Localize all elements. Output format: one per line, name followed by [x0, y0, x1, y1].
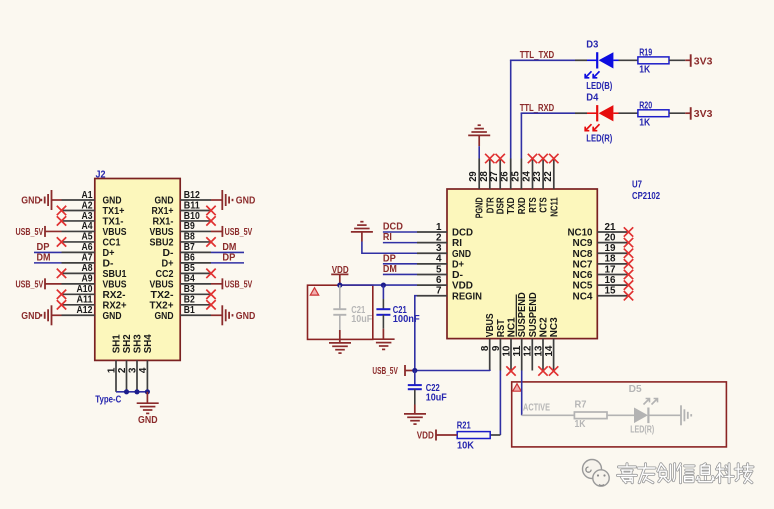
- J2 pin A10 RX2-: [62, 284, 126, 301]
- value label LED(B): [586, 81, 612, 92]
- LED D5 ghost: [634, 399, 658, 424]
- no-connect X on U7 pin 19: [624, 249, 633, 258]
- U7 pin 23 CTS: [532, 159, 550, 213]
- wire R20 to 3V3: [669, 112, 691, 114]
- no-connect X on U7 pin 22: [549, 154, 558, 163]
- wire DM at U7 pin 5: [383, 273, 417, 275]
- svg-text:VBUS: VBUS: [485, 313, 496, 337]
- svg-text:DM: DM: [222, 242, 236, 253]
- net label DM wire at J2 pin B7: [211, 242, 244, 253]
- svg-text:B11: B11: [184, 200, 200, 211]
- svg-text:Type-C: Type-C: [95, 395, 121, 406]
- svg-text:LED(R): LED(R): [630, 424, 654, 435]
- svg-text:3: 3: [436, 243, 442, 254]
- power flag USB_5V at J2 pin A9: [16, 278, 62, 290]
- svg-text:GND: GND: [236, 196, 256, 207]
- U7 pin 4 D+: [417, 254, 464, 271]
- wire TTL_TXD from U7 pin 26: [510, 60, 587, 158]
- U7 pin 2 RI: [417, 232, 462, 249]
- power flag VDD at R21: [417, 430, 436, 442]
- J2 pin B12 GND: [155, 190, 212, 207]
- U7 pin 11 SUSPEND: [512, 292, 528, 370]
- svg-text:VBUS: VBUS: [150, 227, 174, 238]
- resistor R7 ghost: [574, 412, 607, 419]
- svg-text:29: 29: [468, 171, 479, 182]
- svg-text:TXD: TXD: [506, 197, 517, 214]
- svg-text:B8: B8: [184, 232, 195, 243]
- svg-text:NC5: NC5: [573, 281, 593, 292]
- net label DM: [383, 264, 397, 275]
- J2 pin A2 TX1+: [62, 200, 125, 217]
- J2 pin A3 TX1-: [62, 211, 124, 228]
- U7 pin 16 NC5: [573, 275, 629, 292]
- U7 pin 19 NC8: [573, 243, 629, 260]
- wire DCD at U7 pin 1: [383, 231, 417, 233]
- designator R21: [457, 420, 471, 431]
- svg-text:TX2+: TX2+: [150, 300, 174, 311]
- svg-text:B6: B6: [184, 253, 195, 264]
- J2 pin B2 TX2+: [150, 295, 212, 312]
- wire shield bus under J2: [116, 391, 147, 393]
- wire R21 to VDD: [436, 434, 457, 436]
- svg-text:GND: GND: [21, 311, 41, 322]
- net label DP: [383, 253, 396, 264]
- J2 pin A7 D-: [62, 253, 114, 270]
- ground below ghost C21: [329, 330, 351, 353]
- wire D5 to ground ghost: [648, 414, 681, 416]
- svg-text:U7: U7: [632, 179, 642, 190]
- net label RI: [383, 232, 392, 243]
- svg-text:19: 19: [605, 243, 616, 254]
- U7 pin 7 REGIN: [417, 286, 482, 303]
- watermark text: [618, 464, 754, 483]
- wire VDD node to U7 pin 6: [340, 284, 417, 286]
- svg-text:PGND: PGND: [475, 197, 486, 218]
- svg-text:A8: A8: [82, 263, 93, 274]
- J2 pin B4 VBUS: [150, 274, 212, 291]
- svg-text:RI: RI: [383, 232, 392, 243]
- svg-text:R20: R20: [639, 100, 652, 111]
- net label DM wire at J2 pin A7: [34, 252, 62, 263]
- svg-text:RX1-: RX1-: [153, 217, 174, 228]
- U7 pin 15 NC4: [573, 286, 629, 303]
- designator D3: [586, 40, 598, 51]
- svg-text:3V3: 3V3: [694, 109, 713, 120]
- net label DP wire at J2 pin A6: [34, 242, 62, 253]
- svg-text:A12: A12: [77, 305, 93, 316]
- svg-text:18: 18: [605, 254, 616, 265]
- U7 pin 18 NC7: [573, 254, 629, 271]
- svg-text:RXD: RXD: [517, 197, 528, 214]
- wire gnd to U7 pin 3: [362, 242, 417, 254]
- svg-text:REGIN: REGIN: [452, 291, 482, 302]
- svg-text:J2: J2: [96, 170, 106, 181]
- svg-text:SH1: SH1: [111, 334, 122, 353]
- svg-text:1K: 1K: [639, 117, 651, 128]
- value label 100nF: [393, 314, 420, 325]
- J2 pin B6 D+: [162, 253, 212, 270]
- svg-text:A3: A3: [82, 211, 93, 222]
- power flag USB_5V at J2 pin B4: [211, 278, 253, 290]
- value label Type-C: [95, 395, 121, 406]
- svg-text:10: 10: [501, 345, 512, 356]
- svg-text:RST: RST: [496, 319, 507, 337]
- designator R19: [639, 48, 652, 59]
- designator C21: [393, 305, 407, 316]
- svg-text:B7: B7: [184, 242, 195, 253]
- svg-text:GND: GND: [103, 196, 122, 207]
- svg-text:GND: GND: [155, 311, 174, 322]
- warning triangle marker: [513, 384, 521, 392]
- no-connect X on U7 pin 13: [538, 366, 547, 375]
- U7 pin 9 RST: [491, 319, 507, 370]
- J2 pin B3 TX2-: [151, 284, 212, 301]
- no-connect X on U7 pin 23: [538, 154, 547, 163]
- net label ACTIVE ghost: [523, 403, 550, 414]
- svg-text:USB_5V: USB_5V: [225, 279, 253, 290]
- svg-text:17: 17: [605, 264, 616, 275]
- svg-text:D+: D+: [452, 259, 464, 270]
- J2 pin B5 CC2: [156, 263, 212, 280]
- svg-text:1: 1: [436, 222, 442, 233]
- svg-text:14: 14: [544, 345, 555, 356]
- svg-text:NC8: NC8: [573, 249, 593, 260]
- svg-text:B12: B12: [184, 190, 200, 201]
- U7 pin 1 DCD: [417, 222, 473, 239]
- svg-text:10uF: 10uF: [351, 314, 372, 325]
- svg-text:DCD: DCD: [452, 228, 473, 239]
- no-connect X on U7 pin 27: [496, 154, 505, 163]
- svg-text:RX2-: RX2-: [103, 290, 126, 301]
- power flag USB_5V at J2 pin B9: [211, 226, 253, 238]
- J2 pin A11 RX2+: [62, 295, 127, 312]
- svg-text:VBUS: VBUS: [103, 227, 127, 238]
- U7 pin 6 VDD: [417, 275, 473, 292]
- J2 pin A6 D+: [62, 242, 115, 259]
- LED D3 blue: [585, 52, 618, 78]
- J2 pin B9 VBUS: [150, 221, 212, 238]
- svg-text:TX2-: TX2-: [151, 290, 174, 301]
- svg-text:A11: A11: [77, 295, 93, 306]
- ground below C21: [373, 329, 395, 350]
- svg-text:2: 2: [117, 367, 128, 373]
- svg-text:LED(R): LED(R): [586, 134, 612, 145]
- svg-text:NC7: NC7: [573, 259, 593, 270]
- ground flag GND at J2 pin A1: [21, 190, 61, 210]
- svg-text:D-: D-: [103, 258, 114, 269]
- ground GND below J2: [137, 392, 159, 426]
- IC U7 body: [447, 189, 597, 339]
- J2 pin A12 GND: [62, 305, 122, 322]
- svg-text:GND: GND: [138, 415, 158, 426]
- svg-text:GND: GND: [21, 196, 41, 207]
- wire ACTIVE to R7 ghost: [522, 414, 575, 416]
- no-connect X on J2 pin B5: [206, 269, 215, 278]
- wire U7 pin 11 to ACTIVE: [521, 371, 523, 416]
- designator D5 ghost: [629, 384, 642, 395]
- svg-text:DM: DM: [383, 264, 397, 275]
- svg-text:RX2+: RX2+: [103, 300, 127, 311]
- svg-text:100nF: 100nF: [393, 314, 420, 325]
- svg-text:B3: B3: [184, 284, 195, 295]
- svg-text:LED(B): LED(B): [586, 81, 612, 92]
- svg-text:CTS: CTS: [539, 197, 550, 213]
- svg-text:10K: 10K: [457, 441, 475, 452]
- junction SH3: [134, 389, 139, 394]
- value label 1K: [639, 65, 651, 76]
- svg-text:28: 28: [479, 171, 490, 182]
- U7 pin 22 NC11: [543, 159, 561, 217]
- no-connect X on U7 pin 21: [624, 227, 633, 236]
- svg-text:GND: GND: [236, 311, 256, 322]
- U7 pin 21 NC10: [568, 222, 629, 239]
- wire DP at U7 pin 4: [383, 263, 417, 265]
- no-connect X on J2 pin A5: [57, 237, 66, 246]
- svg-text:DP: DP: [37, 242, 50, 253]
- U7 pin 29 PGND: [468, 159, 486, 219]
- no-connect X on J2 pin B11: [206, 206, 215, 215]
- svg-text:A10: A10: [77, 284, 93, 295]
- U7 pin 10 NC1: [501, 317, 517, 371]
- capacitor C21 100nF: [376, 285, 390, 329]
- svg-text:TX1+: TX1+: [103, 206, 125, 217]
- wire U7 pin 9 to R21: [490, 371, 500, 436]
- svg-text:R19: R19: [639, 48, 652, 59]
- svg-text:NC4: NC4: [573, 291, 593, 302]
- svg-text:D-: D-: [163, 248, 174, 259]
- svg-text:SH2: SH2: [122, 334, 133, 353]
- no-connect X on J2 pin B8: [206, 237, 215, 246]
- ground GND above U7 pin 29: [468, 125, 490, 158]
- svg-text:NC9: NC9: [573, 238, 593, 249]
- ghost capacitor C21 10uF: [333, 285, 372, 330]
- svg-text:GND: GND: [452, 249, 471, 260]
- svg-text:SUSPEND: SUSPEND: [528, 292, 539, 337]
- svg-text:D4: D4: [586, 93, 598, 104]
- svg-text:RTS: RTS: [528, 197, 539, 213]
- no-connect X on U7 pin 17: [624, 270, 633, 279]
- svg-text:CC1: CC1: [103, 238, 121, 249]
- designator U7: [632, 179, 642, 190]
- J2 pin SH4: [138, 334, 154, 392]
- svg-text:11: 11: [512, 345, 523, 356]
- svg-text:NC11: NC11: [549, 197, 560, 217]
- svg-text:VDD: VDD: [417, 431, 434, 442]
- J2 pin B10 RX1-: [153, 211, 212, 228]
- wire R7 to D5 ghost: [607, 414, 634, 416]
- svg-text:A4: A4: [82, 221, 93, 232]
- svg-text:27: 27: [489, 171, 500, 182]
- svg-text:10uF: 10uF: [426, 393, 447, 404]
- value label LED(R) ghost: [630, 424, 654, 435]
- svg-text:DTR: DTR: [485, 197, 496, 214]
- svg-text:NC6: NC6: [573, 270, 593, 281]
- svg-text:NC10: NC10: [568, 228, 593, 239]
- wire D4 to R20: [619, 112, 638, 114]
- no-connect X on U7 pin 20: [624, 238, 633, 247]
- U7 pin 20 NC9: [573, 232, 629, 249]
- svg-text:7: 7: [436, 286, 442, 297]
- net label TTL_TXD: [520, 50, 555, 61]
- J2 pin B7 D-: [163, 242, 212, 259]
- svg-text:16: 16: [605, 275, 616, 286]
- wire REGIN / USB_5V node: [415, 296, 490, 371]
- svg-text:B9: B9: [184, 221, 195, 232]
- ground flag GND at J2 pin B12: [211, 190, 255, 210]
- svg-text:B4: B4: [184, 274, 195, 285]
- no-connect X on J2 pin B3: [206, 290, 215, 299]
- value label LED(R): [586, 134, 612, 145]
- svg-text:20: 20: [605, 232, 616, 243]
- U7 pin 14 NC3: [544, 317, 560, 371]
- svg-text:4: 4: [138, 367, 149, 373]
- J2 pin A8 SBU1: [62, 263, 127, 280]
- ground flag GND at J2 pin B1: [211, 305, 255, 325]
- no-connect X on U7 pin 10: [506, 366, 515, 375]
- svg-text:B5: B5: [184, 263, 195, 274]
- svg-text:CP2102: CP2102: [632, 191, 660, 202]
- no-connect X on U7 pin 16: [624, 280, 633, 289]
- J2 pin B1 GND: [155, 305, 212, 322]
- svg-text:D3: D3: [586, 40, 598, 51]
- svg-text:D+: D+: [103, 248, 115, 259]
- resistor R19: [638, 57, 669, 64]
- svg-text:24: 24: [522, 171, 533, 182]
- power flag 3V3 at R20: [691, 107, 713, 120]
- svg-text:4: 4: [436, 254, 442, 265]
- no-connect X on J2 pin B2: [206, 300, 215, 309]
- svg-text:25: 25: [510, 171, 521, 182]
- net label TTL_RXD: [520, 103, 555, 114]
- power flag USB_5V at J2 pin A4: [16, 226, 62, 238]
- U7 pin 24 RTS: [522, 159, 540, 213]
- ground GND at U7 pin 3: [351, 222, 373, 242]
- U7 pin 26 TXD: [500, 159, 518, 215]
- no-connect X on U7 pin 15: [624, 291, 633, 300]
- svg-text:NC2: NC2: [539, 317, 550, 337]
- no-connect X on U7 pin 18: [624, 259, 633, 268]
- J2 pin SH1: [106, 334, 122, 392]
- designator R20: [639, 100, 652, 111]
- svg-text:DP: DP: [222, 252, 235, 263]
- J2 pin B8 SBU2: [150, 232, 212, 249]
- junction VDD node: [337, 283, 342, 288]
- svg-text:3V3: 3V3: [694, 56, 713, 67]
- net label DP wire at J2 pin B6: [211, 252, 244, 263]
- svg-text:TTL_TXD: TTL_TXD: [520, 50, 555, 61]
- svg-text:A6: A6: [82, 242, 93, 253]
- svg-text:GND: GND: [103, 311, 122, 322]
- svg-text:A9: A9: [82, 274, 93, 285]
- power flag USB_5V bottom: [372, 365, 414, 377]
- svg-text:21: 21: [605, 222, 616, 233]
- svg-text:VBUS: VBUS: [103, 279, 127, 290]
- J2 pin A4 VBUS: [62, 221, 127, 238]
- svg-text:SH4: SH4: [143, 334, 154, 353]
- no-connect X on J2 pin A8: [57, 269, 66, 278]
- svg-text:12: 12: [523, 345, 534, 356]
- svg-text:ACTIVE: ACTIVE: [523, 403, 550, 414]
- svg-text:RI: RI: [452, 238, 462, 249]
- designator J2: [96, 170, 106, 181]
- no-connect X on U7 pin 28: [485, 154, 494, 163]
- junction C21 node: [381, 283, 386, 288]
- net label DCD: [383, 221, 403, 232]
- svg-text:CC2: CC2: [156, 269, 174, 280]
- value label 10K: [457, 441, 475, 452]
- svg-text:USB_5V: USB_5V: [16, 227, 44, 238]
- no-connect X on J2 pin A3: [57, 216, 66, 225]
- wire R19 to 3V3: [669, 59, 691, 61]
- no-connect X on J2 pin A2: [57, 206, 66, 215]
- U7 pin 3 GND: [417, 243, 471, 260]
- svg-text:13: 13: [533, 345, 544, 356]
- svg-text:23: 23: [532, 171, 543, 182]
- svg-text:22: 22: [543, 171, 554, 182]
- svg-text:9: 9: [491, 345, 502, 351]
- no-connect X on U7 pin 24: [528, 154, 537, 163]
- J2 pin SH3: [127, 334, 143, 392]
- svg-text:VDD: VDD: [452, 281, 473, 292]
- svg-text:D-: D-: [452, 270, 463, 281]
- svg-text:TX1-: TX1-: [103, 217, 124, 228]
- svg-text:26: 26: [500, 171, 511, 182]
- svg-text:8: 8: [480, 345, 491, 351]
- J2 pin A9 VBUS: [62, 274, 127, 291]
- svg-text:R21: R21: [457, 420, 471, 431]
- svg-text:A7: A7: [82, 253, 93, 264]
- value label 1K ghost: [575, 419, 587, 430]
- svg-text:5: 5: [436, 264, 442, 275]
- svg-text:DM: DM: [37, 252, 51, 263]
- U7 pin 25 RXD: [510, 159, 528, 215]
- svg-text:NC3: NC3: [549, 317, 560, 337]
- svg-text:A5: A5: [82, 232, 93, 243]
- svg-text:TTL_RXD: TTL_RXD: [520, 103, 555, 114]
- U7 pin 28 DTR: [479, 159, 497, 214]
- value label CP2102: [632, 191, 660, 202]
- J2 pin B11 RX1+: [152, 200, 212, 217]
- U7 pin 12 SUSPEND: [523, 292, 539, 370]
- U7 pin 8 VBUS: [480, 313, 496, 370]
- svg-text:1K: 1K: [575, 419, 587, 430]
- J2 pin A1 GND: [62, 190, 122, 207]
- resistor R21: [457, 432, 490, 439]
- svg-text:DSR: DSR: [496, 197, 507, 215]
- svg-text:3: 3: [127, 367, 138, 373]
- no-connect X on J2 pin B10: [206, 216, 215, 225]
- resistor R20: [638, 110, 669, 117]
- svg-text:B2: B2: [184, 295, 195, 306]
- svg-text:SH3: SH3: [132, 334, 143, 353]
- svg-text:D+: D+: [162, 258, 174, 269]
- svg-text:2: 2: [436, 232, 442, 243]
- wire TTL_RXD from U7 pin 25: [521, 113, 587, 158]
- highlight box around ghost capacitor: [308, 285, 373, 339]
- svg-text:1K: 1K: [639, 65, 651, 76]
- svg-text:6: 6: [436, 275, 442, 286]
- svg-text:RX1+: RX1+: [152, 206, 174, 217]
- svg-text:B10: B10: [184, 211, 200, 222]
- svg-text:USB_5V: USB_5V: [16, 279, 44, 290]
- no-connect X on J2 pin A11: [57, 300, 66, 309]
- watermark logo: [583, 460, 610, 487]
- wire D3 to R19: [619, 59, 638, 61]
- power flag 3V3 at R19: [691, 54, 713, 67]
- value label 10uF: [426, 393, 447, 404]
- no-connect X on J2 pin A10: [57, 290, 66, 299]
- svg-text:SUSPEND: SUSPEND: [517, 292, 528, 337]
